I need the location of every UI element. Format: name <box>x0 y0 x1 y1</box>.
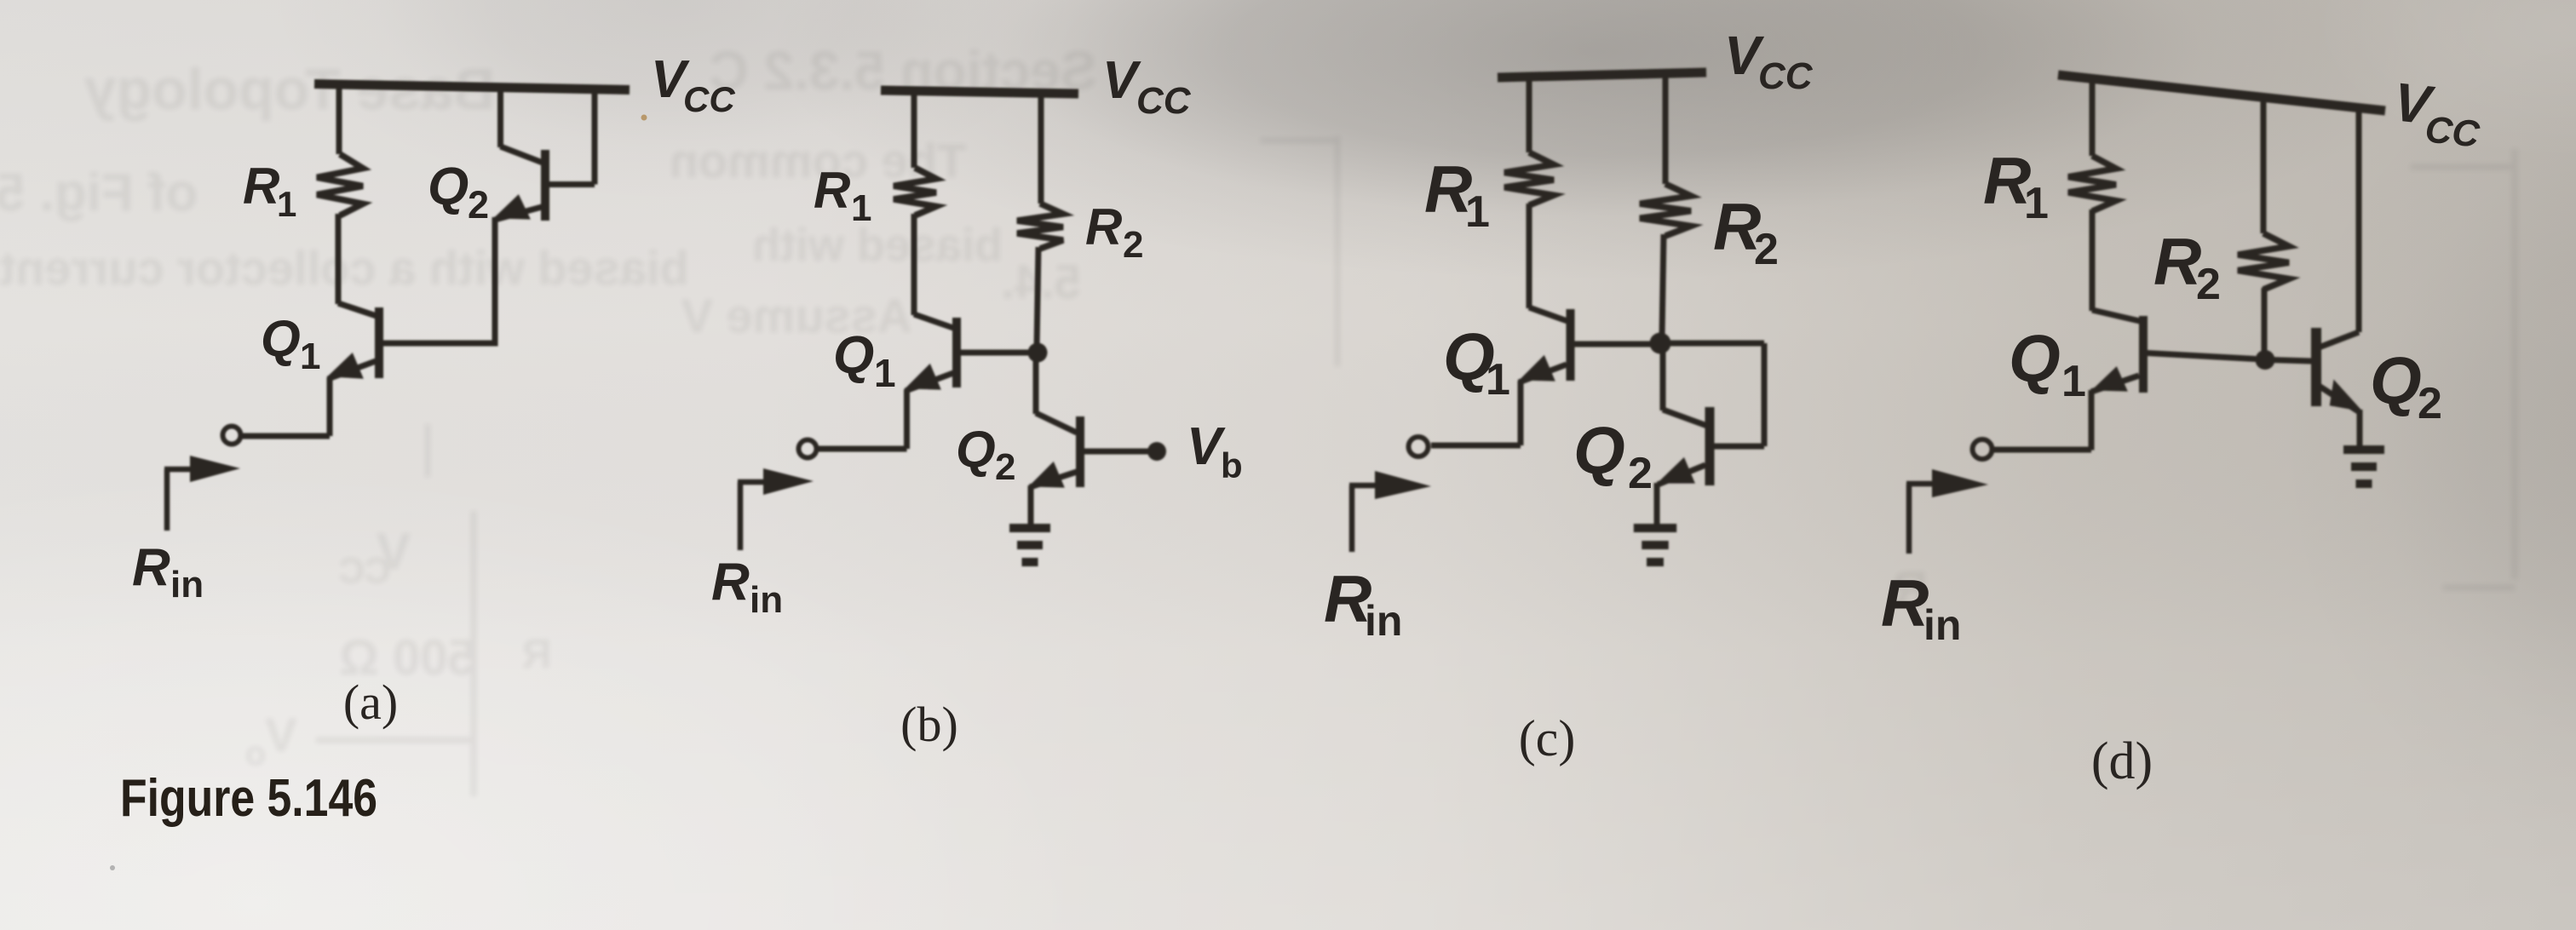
ghost bleed-through text <box>84 57 496 122</box>
wire: Q2 emitter down to Q1 base (a) <box>492 217 498 347</box>
svg-text:Figure 5.146: Figure 5.146 <box>120 769 377 828</box>
svg-text:1: 1 <box>1486 355 1510 405</box>
input terminal circle (b) <box>799 440 817 458</box>
label R2 (c) <box>1713 189 1779 274</box>
label R1 (c) <box>1424 152 1490 237</box>
label (a) <box>343 675 398 730</box>
svg-text:(c): (c) <box>1519 710 1576 766</box>
wire: Q2 emitter to ground (b) <box>1028 485 1034 525</box>
transistor Q1 (a) <box>327 303 494 379</box>
svg-text:in: in <box>1923 601 1961 649</box>
svg-text:R: R <box>2153 224 2201 299</box>
wire: node to Q2 base (d) <box>2270 360 2312 362</box>
svg-text:Q: Q <box>833 326 874 385</box>
resistor R1 (b) <box>894 168 936 215</box>
label Q1 (d) <box>2009 321 2086 406</box>
resistor R2 (b) <box>1017 204 1063 249</box>
transistor Q1 (d) <box>2091 310 2256 393</box>
transistor Q2 (d), mirrored <box>2316 108 2363 412</box>
node: Q1 base / R2 / Q2 base (d) <box>2256 350 2275 370</box>
label Vcc (d) <box>2391 71 2483 155</box>
ground (d) <box>2343 450 2384 484</box>
svg-text:Q: Q <box>428 158 469 216</box>
resistor R1 (a) <box>317 154 363 215</box>
Vcc rail (d) <box>2058 75 2385 111</box>
Vcc rail (a) <box>314 84 630 90</box>
label Q1 (a) <box>261 310 320 377</box>
label Rin (a) <box>132 538 204 606</box>
wire: R1 top lead (b) <box>911 89 917 168</box>
wire: R1 top lead (d) <box>2090 77 2096 156</box>
label Vcc (b) <box>1102 51 1192 122</box>
svg-text:2: 2 <box>2196 260 2221 309</box>
wire: R1 top lead (c) <box>1527 73 1532 152</box>
svg-text:1: 1 <box>874 351 896 395</box>
svg-text:R: R <box>522 632 552 677</box>
label Vcc (c) <box>1724 25 1814 97</box>
input terminal circle (c) <box>1409 437 1429 456</box>
Rin arrow (d) <box>1906 469 1988 554</box>
label R1 (a) <box>243 158 296 224</box>
wire: node to Q2 base (diode connection) (c) <box>1666 343 1764 446</box>
wire: R1 bottom lead (c) <box>1527 204 1532 308</box>
wire: R1 top lead (a) <box>336 85 342 154</box>
svg-text:1: 1 <box>300 336 320 377</box>
base bias terminal dot Vb (b) <box>1147 442 1166 461</box>
svg-text:Q: Q <box>1573 413 1625 488</box>
svg-text:2: 2 <box>1628 449 1653 498</box>
wire: R2 bottom lead to node (d) <box>2262 288 2268 354</box>
wire: R2 top lead (b) <box>1038 91 1044 204</box>
svg-text:Q: Q <box>2370 343 2422 418</box>
transistor Q1 (c) <box>1519 307 1651 382</box>
svg-text:CC: CC <box>1136 80 1192 122</box>
node: Q1 base / R2 / Q2 (c) <box>1650 333 1671 354</box>
wire: R1 bottom lead (d) <box>2090 210 2096 311</box>
label Rin (d) <box>1881 565 1961 649</box>
svg-text:1: 1 <box>277 184 296 224</box>
svg-text:Q: Q <box>956 421 996 478</box>
input terminal circle (d) <box>1973 439 1992 459</box>
svg-text:in: in <box>750 579 783 621</box>
label (c) <box>1519 710 1576 766</box>
wire: R1 bottom lead (b) <box>911 214 917 315</box>
label Rin (b) <box>711 553 783 621</box>
label (d) <box>2091 732 2153 790</box>
svg-text:Q: Q <box>261 310 301 367</box>
ground (c) <box>1634 528 1676 562</box>
label Q2 (d) <box>2370 343 2442 428</box>
label Q2 (b) <box>956 421 1015 488</box>
svg-text:(d): (d) <box>2091 732 2153 790</box>
svg-text:1: 1 <box>1465 187 1490 237</box>
resistor R2 (c) <box>1640 184 1691 236</box>
svg-text:o: o <box>245 735 266 772</box>
svg-text:CC: CC <box>2424 108 2483 156</box>
label Q2 (c) <box>1573 413 1653 498</box>
label (b) <box>900 697 958 752</box>
Vcc rail (c) <box>1498 72 1706 77</box>
transistor Q2 (c), diode-connected <box>1657 347 1710 485</box>
label Vb (b) <box>1187 417 1243 485</box>
svg-text:2: 2 <box>468 183 489 227</box>
svg-text:R: R <box>132 538 170 597</box>
transistor Q2 (a), diode-connected at Vcc <box>493 86 595 221</box>
caption Figure 5.146 <box>120 769 377 828</box>
Rin arrow (c) <box>1349 471 1431 552</box>
Rin arrow (b) <box>738 468 814 550</box>
svg-text:1: 1 <box>2061 357 2086 406</box>
transistor Q2 (b) <box>1028 353 1148 488</box>
svg-text:2: 2 <box>1754 225 1779 274</box>
label R2 (d) <box>2153 224 2221 309</box>
label R1 (d) <box>1983 143 2049 228</box>
resistor R1 (d) <box>2068 156 2116 211</box>
wire: Q2 emitter to ground (c) <box>1654 483 1660 525</box>
wire: R2 bottom lead to node (c) <box>1662 234 1664 337</box>
label R2 (b) <box>1085 198 1143 266</box>
resistor R1 (c) <box>1504 152 1554 205</box>
ground (b) <box>1009 528 1050 562</box>
wire: Q2 emitter to ground (d) <box>2357 410 2363 446</box>
svg-text:biased with a collector curren: biased with a collector current of <box>0 241 689 295</box>
svg-text:1: 1 <box>851 187 871 229</box>
wire: Q1 emitter to input (b) <box>818 389 907 449</box>
label R1 (b) <box>814 162 871 229</box>
transistor Q1 (b) <box>905 314 1031 391</box>
wire: R2 top lead (c) <box>1663 74 1669 184</box>
input terminal circle (a) <box>223 427 241 445</box>
svg-text:R: R <box>1881 565 1929 640</box>
wire: Q1 emitter to input (d) <box>1992 390 2091 451</box>
svg-text:R: R <box>243 158 279 215</box>
Rin arrow (a) <box>164 456 240 531</box>
svg-text:in: in <box>1365 597 1402 645</box>
paper speck <box>641 115 647 121</box>
svg-text:CC: CC <box>339 550 391 590</box>
wire: Q1 emitter to input (c) <box>1431 381 1521 445</box>
svg-text:biased with: biased with <box>752 220 1003 271</box>
resistor R2 (d) <box>2238 233 2289 290</box>
label Q1 (c) <box>1443 319 1510 405</box>
svg-text:(a): (a) <box>343 675 398 730</box>
wire: R2 bottom lead to node (b) <box>1037 247 1038 347</box>
label Q2 (a) <box>428 158 489 227</box>
svg-text:CC: CC <box>1758 55 1814 97</box>
svg-text:2: 2 <box>995 446 1015 488</box>
svg-text:CC: CC <box>683 79 735 119</box>
wire: R1 bottom lead (a) <box>336 214 342 304</box>
wire: R2 top lead (d) <box>2261 95 2267 233</box>
svg-text:b: b <box>1221 445 1243 485</box>
svg-text:V: V <box>265 708 296 761</box>
label Q1 (b) <box>833 326 896 395</box>
svg-text:1: 1 <box>2024 179 2049 228</box>
svg-text:Assume V: Assume V <box>681 289 912 342</box>
svg-text:in: in <box>170 564 204 606</box>
Vcc rail (b) <box>881 90 1078 94</box>
svg-text:R: R <box>1085 198 1122 255</box>
svg-text:(b): (b) <box>900 697 958 752</box>
label Vcc (a) <box>651 50 735 119</box>
wire: Q1 emitter to input (a) <box>242 377 330 436</box>
svg-text:Q: Q <box>2009 321 2061 396</box>
node: Q1 base / R2 / Q2 collector (b) <box>1028 343 1048 363</box>
svg-text:of Fig. 5.: of Fig. 5. <box>0 164 198 222</box>
ghost bleed-through wires <box>471 511 477 796</box>
svg-text:2: 2 <box>2418 379 2442 428</box>
label Rin (c) <box>1324 561 1402 645</box>
svg-text:R: R <box>711 553 750 611</box>
svg-text:R: R <box>814 162 850 219</box>
svg-text:2: 2 <box>1123 224 1143 266</box>
